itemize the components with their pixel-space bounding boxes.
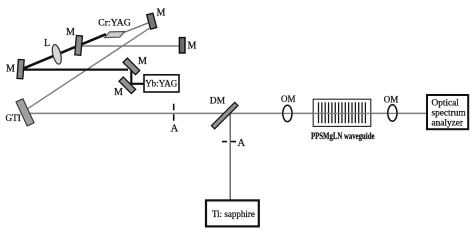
wire: beam GTI to top mirror <box>28 28 150 109</box>
svg-text:Cr:YAG: Cr:YAG <box>98 18 131 29</box>
lens L <box>51 44 63 65</box>
OM lens 1 <box>283 105 292 121</box>
waveguide grating bars <box>319 102 366 123</box>
svg-text:OM: OM <box>281 94 296 104</box>
svg-text:analyzer: analyzer <box>432 119 464 129</box>
wire: beam crystal to top mirror <box>122 23 149 33</box>
wire: beam mid mirror to right mirror <box>82 45 180 47</box>
GTI mirror <box>16 99 34 126</box>
Optical spectrum analyzer box <box>427 95 468 129</box>
svg-text:PPSMgLN waveguide: PPSMgLN waveguide <box>311 131 375 141</box>
mirror M middle <box>75 35 83 55</box>
wire: pump beam diagonal through lens <box>24 34 106 68</box>
PPSMgLN waveguide box <box>313 99 371 126</box>
wire: vertical between fold mirrors <box>130 68 132 84</box>
svg-text:Yb:YAG: Yb:YAG <box>145 79 178 89</box>
Ti:sapphire box <box>206 200 259 226</box>
svg-text:OM: OM <box>384 94 399 104</box>
Cr:YAG crystal <box>105 32 125 38</box>
svg-text:M: M <box>157 8 166 19</box>
wire: beam through OM lens 2 <box>388 112 396 114</box>
mirror M right <box>179 38 185 53</box>
svg-text:A: A <box>238 138 246 149</box>
plane A dashed line <box>173 104 175 122</box>
mirror M left <box>17 59 24 78</box>
Yb:YAG box <box>144 75 179 92</box>
svg-text:DM: DM <box>210 97 226 107</box>
svg-text:Optical: Optical <box>432 99 460 109</box>
mirror M top <box>147 13 157 29</box>
svg-text:spectrum: spectrum <box>432 109 467 119</box>
wire: black horizontal to fold mirror <box>24 68 128 70</box>
wire: DM down to Ti:sapphire <box>229 113 231 201</box>
svg-text:GTI: GTI <box>6 113 21 123</box>
wire: fold mirror to Yb:YAG <box>129 83 145 85</box>
dashed A' marker <box>222 141 236 143</box>
svg-text:M: M <box>66 27 75 38</box>
OM lens 2 <box>388 105 397 121</box>
wire: main beam GTI to OSA <box>28 112 427 114</box>
dichroic mirror DM <box>211 102 238 129</box>
svg-text:M: M <box>114 87 123 98</box>
svg-text:M: M <box>6 64 15 75</box>
svg-text:A: A <box>171 124 179 135</box>
wire: beam through waveguide <box>313 112 371 114</box>
svg-text:M: M <box>138 56 147 67</box>
wire: beam through OM lens 1 <box>283 112 291 114</box>
svg-text:Ti: sapphire: Ti: sapphire <box>212 209 255 219</box>
svg-text:L: L <box>44 38 50 49</box>
svg-text:M: M <box>188 41 197 52</box>
fold mirror upper M <box>123 58 140 75</box>
fold mirror lower M <box>119 77 136 94</box>
